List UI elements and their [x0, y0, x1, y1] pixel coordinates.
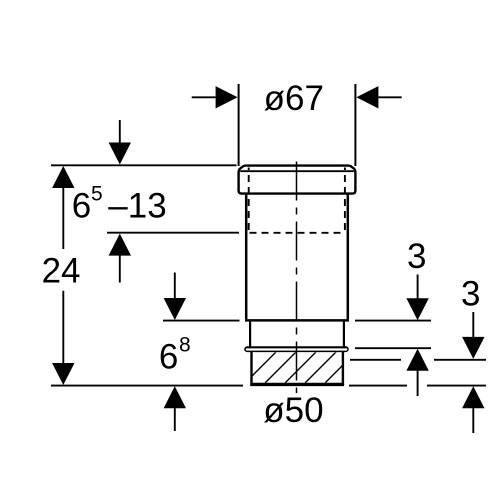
- svg-text:5: 5: [91, 183, 103, 206]
- bead top line: [246, 346, 347, 348]
- arrow up 24 top: [52, 166, 74, 249]
- dia67 arrow left: [216, 86, 238, 108]
- dim line top (6.5-13 upper / 24 upper): [51, 164, 237, 166]
- extension line right dia67: [354, 84, 356, 166]
- socket depth dashed line right: [344, 168, 346, 233]
- spigot mid section: [250, 320, 344, 346]
- svg-text:8: 8: [179, 334, 191, 357]
- dim line step left: [163, 320, 240, 322]
- svg-text:6: 6: [159, 337, 178, 376]
- arrow down 6.5-13 top: [109, 120, 131, 165]
- svg-text:3: 3: [461, 275, 480, 314]
- insertion end bottom edge: [250, 383, 344, 386]
- extension line left dia67: [238, 84, 240, 166]
- 24 stem lower + arrow down bottom: [52, 291, 74, 385]
- arrow down 3b: [462, 312, 484, 359]
- centerline: [296, 162, 298, 394]
- insertion end box: [252, 351, 343, 384]
- dia67 dim line left: [192, 96, 216, 98]
- arrow down 6.8: [164, 273, 186, 321]
- dim line 6.5-13 lower: [107, 232, 239, 234]
- arrow up 3b: [462, 386, 484, 433]
- arrow up 6.8 bottom: [164, 386, 186, 431]
- svg-text:6: 6: [72, 186, 91, 225]
- svg-text:ø67: ø67: [264, 79, 324, 118]
- svg-text:3: 3: [407, 237, 426, 276]
- socket depth dashed line bottom: [250, 232, 345, 234]
- dim line bottom: [51, 385, 486, 387]
- dia67 arrow right: [356, 86, 378, 108]
- arrow up 3a: [406, 349, 428, 396]
- arrow down 3a: [406, 275, 428, 321]
- svg-text:24: 24: [42, 252, 81, 291]
- dim line groove right: [350, 359, 486, 361]
- arrow up 6.5-13 bottom: [109, 234, 131, 283]
- svg-text:ø50: ø50: [263, 391, 323, 430]
- svg-text:–13: –13: [108, 186, 166, 225]
- dia67 dim line right: [378, 96, 401, 98]
- bead ring: [245, 347, 348, 351]
- pipe body: [245, 194, 349, 321]
- flange shoulder line: [240, 170, 354, 172]
- dim line step right: [355, 320, 431, 322]
- flange (socket collar): [239, 166, 356, 194]
- dim line bead right: [355, 347, 431, 349]
- hatch pattern: [243, 350, 378, 385]
- socket depth dashed line left: [248, 168, 250, 233]
